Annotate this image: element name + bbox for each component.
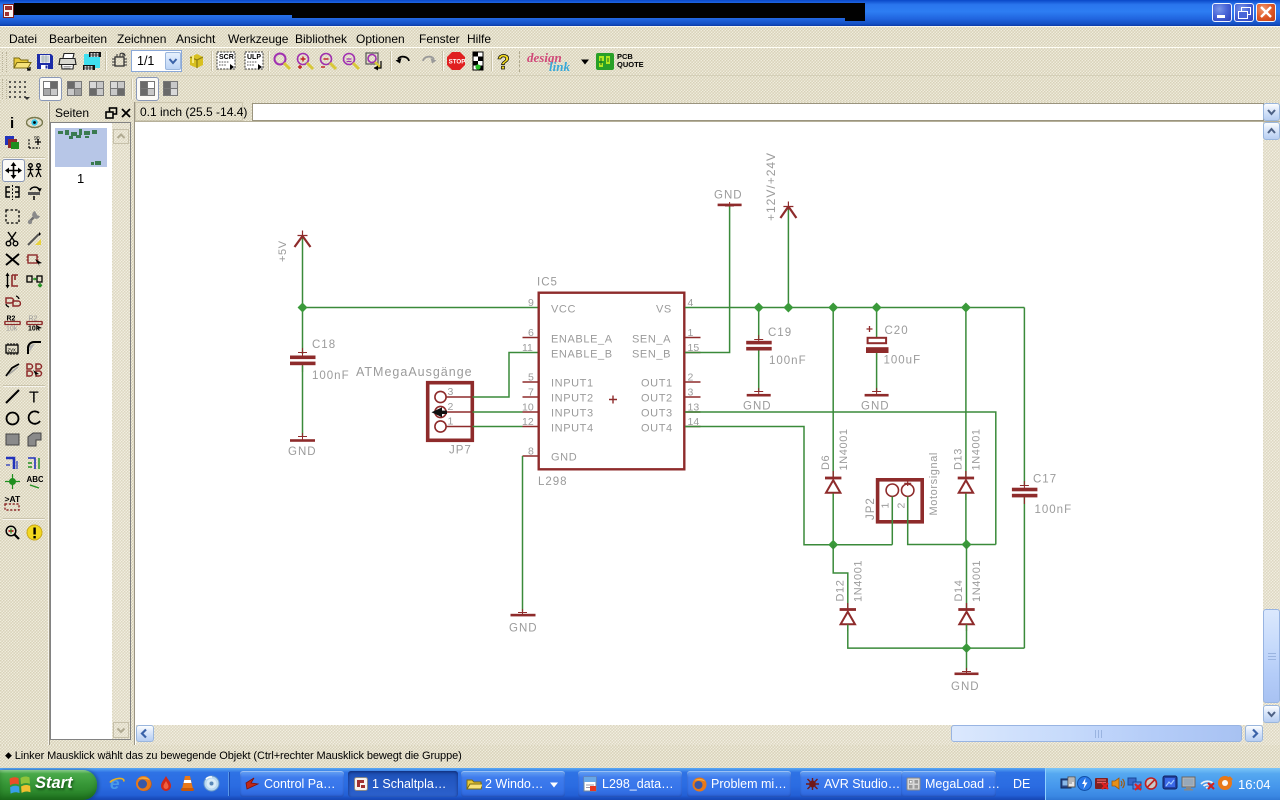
IC5 pin name VCC: [551, 304, 576, 316]
ground under C18: [290, 433, 315, 442]
svg-text:L298: L298: [538, 476, 568, 488]
svg-text:SCR: SCR: [219, 54, 234, 61]
label JP7: [449, 445, 472, 457]
wire VS to D13 cathode: [965, 308, 967, 478]
svg-text:SEN_B: SEN_B: [632, 349, 671, 361]
label C17 value 100nF: [1035, 504, 1073, 516]
svg-text:e: e: [110, 775, 119, 792]
diode D12 1N4001: [840, 603, 856, 631]
label D14: [953, 580, 965, 602]
label C18: [312, 339, 336, 351]
IC5 pin name ENABLE_A: [551, 334, 613, 346]
label D12 value 1N4001: [853, 560, 865, 602]
IC5 pin 7 number: [528, 387, 534, 399]
svg-text:IC5: IC5: [537, 277, 558, 289]
svg-text:1N4001: 1N4001: [853, 560, 865, 602]
label: [26, 473, 43, 490]
IC5 pin name INPUT2: [551, 393, 594, 405]
svg-text:GND: GND: [288, 446, 317, 458]
svg-text:1: 1: [448, 416, 454, 428]
svg-text:GND: GND: [861, 401, 890, 413]
wire JP7 pin2 to INPUT3: [473, 411, 523, 413]
IC5 pin name SEN_B: [632, 349, 671, 361]
svg-text:3: 3: [688, 387, 694, 399]
label Motorsignal: [928, 452, 940, 515]
wire C20 to GND: [876, 353, 878, 392]
svg-text:10: 10: [522, 402, 534, 414]
ground under C19: [747, 388, 771, 397]
erc: [4, 524, 21, 541]
bus: [4, 455, 21, 472]
svg-text:zyx: zyx: [8, 348, 17, 354]
wire OUT3 to D14 node: [685, 412, 996, 545]
svg-text:100nF: 100nF: [1035, 504, 1073, 516]
JP2 pin number 2: [896, 503, 908, 509]
IC5 pin 12 number: [522, 416, 534, 428]
svg-text:D12: D12: [835, 580, 847, 602]
IC5 pin name ENABLE_B: [551, 349, 613, 361]
rotate: [26, 184, 43, 201]
label D6 value 1N4001: [838, 428, 850, 470]
label GND under C19: [743, 401, 772, 413]
wire VS net horizontal: [685, 307, 1024, 309]
svg-text:INPUT4: INPUT4: [551, 423, 594, 435]
label JP2: [865, 497, 877, 520]
svg-text:5: 5: [528, 372, 534, 384]
miter: [26, 340, 43, 357]
IC5 pin 4 number: [688, 297, 694, 309]
package swap: [4, 293, 21, 310]
mark: [26, 134, 43, 151]
svg-text:100uF: 100uF: [884, 355, 922, 367]
wire D6 node to D12: [833, 545, 848, 608]
circle: [4, 410, 21, 427]
IC5 pin 6 number: [528, 327, 534, 339]
smash: [4, 340, 21, 357]
mouse cursor at JP7 pin 2: [432, 407, 448, 417]
node junction C20 on VS: [872, 303, 882, 313]
label ATMegaAusgänge: [356, 365, 473, 379]
split: [4, 361, 21, 378]
label IC5: [537, 277, 558, 289]
rect: [4, 431, 21, 448]
svg-text:11: 11: [522, 342, 533, 354]
IC5 pin 10 number: [522, 402, 534, 414]
ground under IC5 pin8: [511, 609, 536, 616]
node junction D6 on VS: [828, 303, 838, 313]
svg-text:GND: GND: [551, 452, 577, 464]
JP7 pin number 1: [448, 416, 454, 428]
attribute: [4, 494, 21, 511]
connector JP2: [878, 480, 923, 522]
svg-text:VS: VS: [656, 304, 672, 316]
group: [4, 208, 21, 225]
text: [26, 388, 43, 405]
svg-text:JP2: JP2: [865, 497, 877, 520]
add: [26, 251, 43, 268]
IC5 pin 1 number: [688, 327, 694, 339]
wire D14 node down to D14: [966, 545, 968, 609]
wire junction down to C18: [302, 308, 304, 355]
paste: [26, 230, 43, 247]
svg-text:INPUT3: INPUT3: [551, 408, 594, 420]
svg-text:+12V/+24V: +12V/+24V: [764, 152, 778, 221]
wire C19 to GND: [758, 351, 760, 392]
capacitor C19: [746, 335, 772, 357]
diode D6 1N4001: [825, 471, 841, 500]
cut: [4, 230, 21, 247]
ground bottom right: [955, 668, 979, 675]
arc: [26, 410, 43, 427]
svg-text:1: 1: [880, 503, 892, 509]
label C20: [885, 325, 909, 337]
info: [4, 114, 21, 131]
gateswap: [26, 272, 43, 289]
IC5 pin 11 number: [522, 342, 533, 354]
name: [4, 314, 21, 331]
capacitor C18: [290, 348, 316, 372]
IC5 pin stubs left: [523, 338, 539, 457]
IC5 origin cross: [609, 396, 617, 404]
IC5 pin name VS: [656, 304, 672, 316]
wire D14 anode to rail: [966, 625, 968, 649]
wire +5V to junction: [302, 239, 304, 308]
display layers: [4, 134, 21, 151]
wire IC5 pin8 to GND: [522, 456, 524, 612]
label GND under IC5 pin8: [509, 623, 538, 635]
node junction D6/OUT4: [828, 540, 838, 550]
JP2 pin number 1: [880, 503, 892, 509]
svg-text:INPUT2: INPUT2: [551, 393, 594, 405]
ground under C20: [865, 388, 889, 397]
svg-text:+5V: +5V: [277, 240, 289, 262]
label D14 value 1N4001: [971, 560, 983, 602]
svg-text:GND: GND: [509, 623, 538, 635]
svg-text:12: 12: [522, 416, 534, 428]
label GND bottom right: [951, 681, 980, 693]
svg-text:i: i: [10, 115, 14, 131]
svg-text:D13: D13: [953, 448, 965, 470]
svg-text:ATMegaAusgänge: ATMegaAusgänge: [356, 365, 473, 379]
node junction D13/D14: [962, 540, 972, 550]
supply +5V label: [277, 240, 289, 262]
label C19 value 100nF: [769, 355, 807, 367]
wire +12V/+24V to VS net: [787, 210, 789, 308]
label D6: [820, 455, 832, 470]
ground symbol top (SEN_B): [718, 202, 742, 209]
label C20 value 100uF: [884, 355, 922, 367]
node junction bottom GND: [962, 643, 972, 653]
svg-text:OUT4: OUT4: [641, 423, 673, 435]
svg-text:6: 6: [528, 327, 534, 339]
supply +12V/+24V symbol: [780, 202, 796, 219]
IC5 pin 14 number: [688, 416, 700, 428]
value: [26, 314, 43, 331]
IC5 pin name GND: [551, 452, 577, 464]
node junction +5V/VCC: [298, 303, 308, 313]
svg-text:3: 3: [448, 386, 454, 398]
polygon: [26, 431, 43, 448]
svg-text:ENABLE_B: ENABLE_B: [551, 349, 613, 361]
wire JP2 pin2 down to D14 node: [908, 497, 996, 545]
svg-text:7: 7: [528, 387, 534, 399]
errors: [26, 524, 43, 541]
IC5 pin name OUT1: [641, 378, 673, 390]
move (selected): [2, 159, 25, 182]
svg-text:ULP: ULP: [247, 54, 261, 61]
copy: [26, 162, 43, 179]
label L298: [538, 476, 568, 488]
op-amp IC5 L298 box: [539, 293, 685, 470]
IC5 pin 3 number: [688, 387, 694, 399]
task buttons: [240, 771, 344, 797]
svg-text:SEN_A: SEN_A: [632, 334, 671, 346]
wire VS to C20: [876, 308, 878, 338]
svg-text:1N4001: 1N4001: [971, 428, 983, 470]
wire VCC net horizontal: [303, 307, 539, 309]
svg-text:2: 2: [896, 503, 908, 509]
label C17: [1033, 474, 1057, 486]
show (eye): [26, 114, 43, 131]
svg-text:100nF: 100nF: [312, 370, 350, 382]
wire bottom rail: [848, 625, 1025, 649]
IC5 pin stubs right: [685, 338, 701, 427]
svg-text:OUT2: OUT2: [641, 393, 673, 405]
capacitor C20 polarized: [866, 326, 889, 360]
wire C18 to GND: [302, 366, 304, 438]
IC5 pin 2 number: [688, 372, 694, 384]
tray: [1045, 768, 1280, 800]
wire D6 anode to junction: [832, 494, 834, 545]
IC5 pin 15 number: [688, 342, 700, 354]
svg-text:ABC: ABC: [27, 475, 44, 484]
label GND top: [714, 190, 743, 202]
svg-text:C18: C18: [312, 339, 336, 351]
pinswap: [4, 272, 21, 289]
svg-text:VCC: VCC: [551, 304, 576, 316]
wire VS to C19: [758, 308, 760, 341]
wire JP7 pin3 to ENABLE_B: [473, 353, 538, 398]
JP7 pin number 2: [448, 401, 454, 413]
svg-text:1N4001: 1N4001: [971, 560, 983, 602]
wire SEN_B to GND top: [685, 207, 730, 353]
svg-text:JP7: JP7: [449, 445, 472, 457]
svg-text:D6: D6: [820, 455, 832, 470]
svg-text:OUT3: OUT3: [641, 408, 673, 420]
wire VS corner down to C17: [1023, 308, 1025, 487]
svg-text:2: 2: [688, 372, 694, 384]
label C18 value 100nF: [312, 370, 350, 382]
connector JP7: [428, 383, 473, 441]
invoke: [26, 361, 43, 378]
svg-text:C17: C17: [1033, 474, 1057, 486]
label GND under C18: [288, 446, 317, 458]
svg-text:T: T: [29, 390, 39, 406]
svg-text:STOP: STOP: [449, 59, 466, 66]
capacitor C17: [1012, 481, 1038, 504]
diode D13 1N4001: [958, 471, 974, 500]
svg-text:90: 90: [34, 136, 40, 142]
wire JP2 pin1 down: [891, 497, 893, 545]
svg-text:10k: 10k: [6, 326, 18, 332]
supply +5V symbol: [295, 231, 311, 248]
IC5 pin 5 number: [528, 372, 534, 384]
change (wrench): [26, 208, 43, 225]
net: [26, 455, 43, 472]
wire OUT4 to motor node: [685, 427, 892, 545]
IC5 pin 13 number: [688, 402, 700, 414]
IC5 pin 9 number: [528, 297, 534, 309]
svg-text:ENABLE_A: ENABLE_A: [551, 334, 613, 346]
svg-text:GND: GND: [951, 681, 980, 693]
IC5 pin name OUT3: [641, 408, 673, 420]
mirror: [4, 184, 21, 201]
node junction C19 on VS: [754, 303, 764, 313]
svg-text:OUT1: OUT1: [641, 378, 673, 390]
label D12: [835, 580, 847, 602]
wire JP7 pin1 to INPUT4: [473, 426, 523, 428]
svg-text:1N4001: 1N4001: [838, 428, 850, 470]
wire VS to D6 cathode: [832, 308, 834, 478]
svg-text:C19: C19: [768, 327, 792, 339]
delete: [4, 251, 21, 268]
wire D13 anode to junction: [965, 494, 967, 545]
wire: [4, 388, 21, 405]
IC5 pin name SEN_A: [632, 334, 671, 346]
IC5 pin name OUT4: [641, 423, 673, 435]
wire junction to GND bottom: [966, 648, 968, 670]
node junction D13 on VS: [961, 303, 971, 313]
JP7 pin number 3: [448, 386, 454, 398]
svg-text:1: 1: [688, 327, 694, 339]
svg-text:INPUT1: INPUT1: [551, 378, 594, 390]
svg-text:Motorsignal: Motorsignal: [928, 452, 940, 515]
IC5 pin name INPUT3: [551, 408, 594, 420]
wire C17 bottom to rail: [1023, 497, 1025, 648]
supply +12V/+24V label: [764, 152, 778, 221]
svg-text:8: 8: [528, 446, 534, 458]
svg-text:100nF: 100nF: [769, 355, 807, 367]
node junction supply on VS: [783, 303, 793, 313]
diode D14 1N4001: [958, 603, 974, 631]
junction: [4, 473, 21, 490]
label D13 value 1N4001: [971, 428, 983, 470]
IC5 pin name INPUT1: [551, 378, 594, 390]
svg-text:C20: C20: [885, 325, 909, 337]
IC5 pin name INPUT4: [551, 423, 594, 435]
label GND under C20: [861, 401, 890, 413]
svg-text:GND: GND: [714, 190, 743, 202]
svg-text:9: 9: [528, 297, 534, 309]
label C19: [768, 327, 792, 339]
svg-text:D14: D14: [953, 580, 965, 602]
label D13: [953, 448, 965, 470]
svg-text:2: 2: [448, 401, 454, 413]
svg-text:?: ?: [497, 51, 510, 73]
svg-text:GND: GND: [743, 401, 772, 413]
IC5 pin 8 number: [528, 446, 534, 458]
svg-text:>AT: >AT: [5, 494, 21, 504]
IC5 pin name OUT2: [641, 393, 673, 405]
